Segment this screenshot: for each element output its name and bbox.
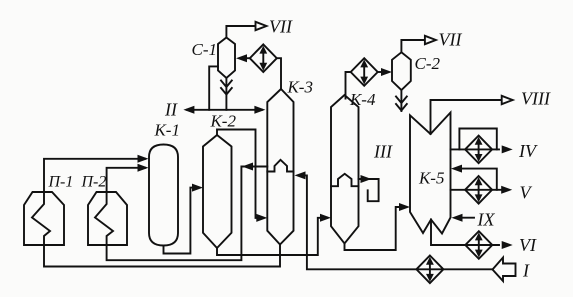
svg-text:VII: VII	[439, 30, 463, 50]
cooler E5	[465, 231, 492, 259]
wire E1 to С-1	[240, 57, 250, 59]
wire К-5 bottoms to VI	[431, 220, 499, 246]
wire К-3 side draw to П-2	[107, 167, 268, 261]
svg-text:С-2: С-2	[415, 54, 441, 73]
separator С-2	[392, 52, 411, 90]
svg-text:III: III	[373, 142, 393, 162]
wire К-2 overhead to К-3 lower side	[217, 130, 263, 218]
svg-text:I: I	[522, 261, 530, 281]
svg-text:II: II	[164, 100, 178, 120]
column К-4	[331, 95, 359, 244]
cooler E4	[465, 176, 492, 204]
wire reflux / stream II header	[187, 109, 262, 111]
wire К-3 bottoms to П-1	[44, 245, 280, 267]
wire С-1 bottoms with double chevron	[225, 78, 227, 110]
wire К-1 bottoms to К-2	[164, 188, 200, 254]
wire К-2 bottoms to К-4	[217, 218, 327, 255]
wire К-5 draw to V	[451, 189, 503, 191]
svg-text:К-3: К-3	[287, 78, 313, 97]
column К-2	[203, 135, 232, 248]
wire П-1 outlet to К-1	[44, 159, 145, 192]
svg-text:VII: VII	[269, 17, 293, 37]
svg-text:К-5: К-5	[418, 169, 444, 188]
furnace П-1 coil	[32, 192, 50, 245]
svg-text:IV: IV	[518, 141, 538, 161]
wire П-2 outlet to К-1	[107, 168, 145, 192]
svg-text:V: V	[520, 183, 533, 203]
wire К-5 overhead to VIII	[431, 100, 502, 134]
condenser E2	[351, 58, 378, 86]
cooler E3	[465, 136, 492, 164]
К-4 internal chimney tray	[331, 174, 359, 186]
svg-text:К-2: К-2	[210, 112, 237, 131]
wire К-3 overhead vapor	[277, 58, 281, 89]
svg-text:С-1: С-1	[192, 40, 218, 59]
К-3 internal chimney tray	[267, 160, 293, 172]
wire С-1 gas to VII	[226, 26, 255, 38]
column К-1	[149, 145, 178, 246]
svg-text:VIII: VIII	[521, 89, 551, 109]
wire E2 to С-2	[378, 71, 387, 73]
furnace П-2 coil	[95, 192, 113, 245]
wire С-2 bottoms with double chevron	[400, 90, 402, 111]
feed/bottoms exchanger E6	[416, 255, 443, 283]
wire К-4 overhead vapor	[346, 72, 351, 99]
wire К-4 side draw seal loop	[359, 179, 379, 201]
svg-text:VI: VI	[519, 235, 537, 255]
condenser E1	[250, 44, 277, 72]
svg-text:К-1: К-1	[154, 121, 180, 140]
svg-text:П-1: П-1	[48, 174, 74, 191]
wire К-5 draw to IV	[451, 148, 500, 150]
svg-text:IX: IX	[477, 210, 496, 230]
svg-text:К-4: К-4	[349, 90, 376, 109]
stream IX inlet	[456, 217, 474, 219]
stream I hollow arrow	[493, 258, 516, 282]
column К-5	[410, 113, 451, 234]
separator С-1	[218, 38, 235, 79]
wire С-1 water draw	[209, 66, 218, 109]
column К-3	[267, 89, 293, 245]
stream I feed wire	[299, 175, 493, 269]
furnace П-1	[24, 192, 64, 245]
wire IV bypass loop	[459, 129, 496, 150]
wire С-2 gas to VII	[401, 40, 424, 52]
wire К-4 bottoms to К-5	[345, 207, 407, 250]
svg-text:П-2: П-2	[81, 174, 107, 191]
wire V reflux return to К-5	[456, 169, 497, 190]
furnace П-2	[88, 192, 127, 245]
